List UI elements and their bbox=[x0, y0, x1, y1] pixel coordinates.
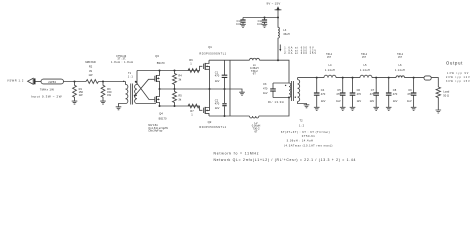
ground bbox=[373, 107, 379, 110]
svg-text:6T: 6T bbox=[254, 129, 257, 133]
node A (sec top tap) bbox=[135, 81, 137, 83]
svg-text:15T: 15T bbox=[327, 57, 332, 59]
node B (sec bottom tap) bbox=[134, 95, 137, 97]
label network bbox=[214, 151, 357, 162]
svg-text:L3: L3 bbox=[283, 28, 286, 32]
capacitor C1 470 1kV bbox=[215, 60, 228, 89]
wire (right bus) bbox=[229, 60, 231, 116]
svg-text:1kV: 1kV bbox=[393, 99, 398, 103]
transformer T1 secondary bbox=[135, 71, 156, 104]
ground bbox=[72, 101, 78, 104]
transistor Q1 bbox=[204, 60, 210, 89]
resistor R4 3k bbox=[173, 71, 183, 90]
capacitor C3 470 1kV bbox=[263, 82, 276, 98]
svg-text:FT50-61: FT50-61 bbox=[302, 134, 316, 138]
wire to Q1 gate bbox=[199, 66, 202, 70]
svg-text:15T: 15T bbox=[362, 57, 367, 59]
svg-text:1.14uH: 1.14uH bbox=[360, 68, 370, 72]
svg-text:1W: 1W bbox=[79, 93, 83, 97]
svg-text:Network QL= 2πfo(L1+L2) / (RL′: Network QL= 2πfo(L1+L2) / (RL′+Cesr) = 2… bbox=[214, 158, 357, 162]
resistor R1 150 1W bbox=[73, 82, 84, 102]
transistor Q4 bbox=[155, 89, 160, 106]
transformer T1 primary bbox=[119, 81, 128, 107]
svg-text:Q2: Q2 bbox=[208, 120, 212, 124]
node bbox=[174, 105, 176, 107]
wire (bottom rail to L2) bbox=[209, 115, 250, 117]
node bbox=[277, 17, 279, 19]
svg-text:Network fo = 11MHz: Network fo = 11MHz bbox=[214, 151, 260, 155]
inductor L2 0.36uH bbox=[250, 116, 261, 133]
inductor L1 0.36uH bbox=[250, 58, 260, 75]
node bbox=[224, 115, 226, 117]
transformer T2 primary bbox=[289, 83, 291, 97]
svg-text:50 Ω: 50 Ω bbox=[443, 94, 449, 98]
wire (top rail to L1) bbox=[209, 59, 250, 61]
svg-text:1kV: 1kV bbox=[357, 99, 362, 103]
ground bbox=[262, 24, 268, 27]
svg-text:1kV: 1kV bbox=[215, 106, 220, 110]
node (phase dot) bbox=[295, 97, 296, 98]
svg-text:2.0A at 600 15V: 2.0A at 600 15V bbox=[284, 52, 317, 55]
svg-text:T30-2: T30-2 bbox=[326, 54, 333, 56]
wire bbox=[64, 81, 87, 83]
svg-text:Q1: Q1 bbox=[208, 45, 212, 49]
svg-text:BS170: BS170 bbox=[157, 61, 165, 65]
label Input 0.3W ~ 2W bbox=[31, 94, 62, 98]
node bbox=[288, 97, 290, 99]
svg-text:VSWR 1.2: VSWR 1.2 bbox=[7, 78, 24, 82]
capacitor C2 470 1kV bbox=[215, 89, 227, 116]
svg-text:1kV: 1kV bbox=[215, 79, 220, 83]
svg-text:C11: C11 bbox=[258, 19, 263, 23]
ground bbox=[314, 107, 320, 110]
resistor R2 39 1W (6dB PAD) bbox=[85, 60, 98, 84]
svg-text:C9: C9 bbox=[408, 88, 412, 92]
node J1a bbox=[74, 81, 76, 83]
wire (LPF rail) bbox=[298, 77, 425, 79]
node bbox=[224, 88, 226, 90]
wire (cross B to Q3 gate) bbox=[135, 79, 155, 95]
svg-text:Load: Load bbox=[443, 90, 449, 94]
capacitor C5 470 1kV bbox=[336, 78, 345, 108]
label VSWR bbox=[7, 78, 24, 82]
transformer T1 labels bbox=[111, 54, 134, 79]
svg-text:470: 470 bbox=[357, 92, 362, 96]
input connector J1 bbox=[28, 78, 36, 84]
ground bbox=[386, 107, 392, 110]
ground bbox=[304, 105, 310, 108]
svg-text:13W typ 9V: 13W typ 9V bbox=[447, 72, 469, 75]
ground bbox=[411, 107, 417, 110]
svg-text:6T: 6T bbox=[253, 72, 256, 76]
svg-text:1W: 1W bbox=[107, 93, 111, 97]
ground bbox=[350, 107, 356, 110]
ground bbox=[239, 92, 245, 95]
node bbox=[159, 70, 161, 72]
svg-text:RL′ 13.3Ω: RL′ 13.3Ω bbox=[268, 100, 284, 104]
svg-text:470: 470 bbox=[336, 92, 341, 96]
wire bbox=[431, 78, 438, 87]
svg-text:1kV: 1kV bbox=[407, 99, 412, 103]
transformer T2 core bbox=[291, 81, 293, 101]
svg-text:R5: R5 bbox=[178, 93, 182, 97]
svg-text:7MHz 1W: 7MHz 1W bbox=[40, 87, 54, 91]
label 9V ~ 15V bbox=[267, 2, 281, 6]
svg-text:T30-2: T30-2 bbox=[361, 54, 368, 56]
svg-text:20W typ 12V: 20W typ 12V bbox=[446, 76, 471, 79]
node bbox=[174, 88, 176, 90]
svg-text:RD3P0509SNTL1: RD3P0509SNTL1 bbox=[199, 125, 226, 129]
svg-text:T30-2: T30-2 bbox=[397, 54, 404, 56]
resistor Load 50ohm bbox=[436, 87, 450, 110]
wire (top drive rail) bbox=[137, 70, 200, 72]
ground bbox=[340, 107, 346, 110]
resistor R3 150 1W bbox=[101, 82, 112, 102]
node bbox=[159, 88, 161, 90]
inductor L3 33uH bbox=[278, 18, 290, 61]
node bbox=[174, 70, 176, 72]
transistor Q3 bbox=[155, 71, 160, 90]
svg-text:1kV: 1kV bbox=[321, 99, 326, 103]
node J2 bbox=[102, 81, 104, 83]
capacitor C4 470 1kV bbox=[314, 78, 326, 108]
svg-text:C8: C8 bbox=[393, 88, 397, 92]
wire (supply rail) bbox=[243, 17, 278, 19]
svg-text:470: 470 bbox=[407, 92, 412, 96]
wire to Q2 gate bbox=[199, 106, 202, 110]
svg-text:R4: R4 bbox=[178, 73, 182, 77]
output coax bbox=[424, 76, 431, 80]
wire bbox=[99, 81, 126, 83]
svg-text:60V 0.5A: 60V 0.5A bbox=[148, 124, 158, 127]
ground bbox=[116, 107, 122, 110]
svg-text:470: 470 bbox=[215, 102, 220, 106]
svg-text:2W50: 2W50 bbox=[48, 80, 56, 84]
svg-text:C6: C6 bbox=[357, 88, 361, 92]
wire bbox=[36, 81, 42, 83]
resistor R7 1 bbox=[188, 104, 199, 116]
wire bbox=[259, 98, 289, 117]
node bbox=[375, 77, 377, 79]
transformer T2 secondary bbox=[298, 78, 307, 105]
svg-text:BS170: BS170 bbox=[159, 116, 167, 120]
node (phase dot) bbox=[285, 85, 286, 86]
svg-text:RD3P0509SNTL1: RD3P0509SNTL1 bbox=[199, 51, 226, 55]
svg-text:Q3: Q3 bbox=[155, 54, 159, 58]
svg-text:1.14uH: 1.14uH bbox=[395, 68, 405, 72]
label BS170 specs bbox=[148, 124, 168, 132]
coax box (2W50) bbox=[41, 79, 64, 84]
node bbox=[342, 77, 344, 79]
transistor Q2 bbox=[204, 89, 210, 116]
svg-text:1 : 2: 1 : 2 bbox=[299, 123, 305, 127]
svg-text:R2: R2 bbox=[89, 65, 93, 69]
svg-text:15T: 15T bbox=[398, 57, 403, 59]
svg-text:470: 470 bbox=[321, 92, 326, 96]
ground bbox=[100, 101, 106, 104]
ground bbox=[436, 110, 442, 113]
svg-text:1W: 1W bbox=[89, 73, 93, 77]
svg-text:Q4: Q4 bbox=[159, 112, 163, 116]
label Q2 bbox=[199, 120, 226, 129]
svg-text:Qg 1.5nC at Vgs5V: Qg 1.5nC at Vgs5V bbox=[148, 127, 168, 130]
capacitor C7 470 1kV bbox=[370, 78, 379, 108]
wire bbox=[260, 60, 290, 83]
inductor L5 1.14uH bbox=[360, 54, 372, 77]
label RL' bbox=[268, 100, 284, 104]
label 7MHz 1W bbox=[40, 87, 54, 91]
svg-text:Output: Output bbox=[446, 60, 463, 65]
svg-text:6dB PAD: 6dB PAD bbox=[85, 60, 96, 64]
node bbox=[209, 88, 211, 90]
inductor L4 1.14uH bbox=[324, 54, 336, 77]
svg-text:1kV: 1kV bbox=[336, 99, 341, 103]
node bbox=[413, 77, 415, 79]
transformer T1 core bbox=[131, 84, 133, 105]
svg-text:C5: C5 bbox=[337, 88, 341, 92]
svg-text:470: 470 bbox=[263, 87, 268, 91]
svg-text:9V ~ 15V: 9V ~ 15V bbox=[267, 2, 281, 6]
svg-text:1.8uH : 1.8uH: 1.8uH : 1.8uH bbox=[111, 60, 134, 64]
node bbox=[316, 77, 318, 79]
svg-text:Input 0.3W ~ 2W: Input 0.3W ~ 2W bbox=[31, 94, 62, 98]
capacitor C6 470 1kV bbox=[350, 78, 362, 108]
wire (cross A to Q4 gate) bbox=[136, 82, 155, 100]
ground bbox=[240, 24, 246, 27]
svg-text:Ciss 24pF typ: Ciss 24pF typ bbox=[148, 129, 163, 132]
label Q3 bbox=[155, 54, 165, 65]
svg-text:470: 470 bbox=[370, 92, 375, 96]
label T2 bbox=[281, 118, 333, 147]
svg-text:C3: C3 bbox=[263, 82, 267, 86]
svg-text:1.14uH: 1.14uH bbox=[325, 68, 335, 72]
svg-text:1kV: 1kV bbox=[370, 99, 375, 103]
svg-text:(4.3ATmax (10.1AT rms max)): (4.3ATmax (10.1AT rms max)) bbox=[284, 144, 333, 148]
current arrow bbox=[279, 45, 317, 56]
node bbox=[159, 105, 161, 107]
resistor R5 3k bbox=[173, 89, 183, 106]
svg-text:1 : 1: 1 : 1 bbox=[128, 75, 134, 79]
wire (mid rail) bbox=[160, 89, 243, 92]
node bbox=[388, 77, 390, 79]
capacitor C9 470 1kV bbox=[407, 78, 416, 108]
node bbox=[352, 77, 354, 79]
svg-text:C10: C10 bbox=[236, 19, 241, 23]
svg-text:470: 470 bbox=[215, 74, 220, 78]
label Output bbox=[446, 60, 471, 83]
svg-text:3T : 3T,: 3T : 3T, bbox=[117, 57, 126, 61]
svg-text:3.36uH : 14.4uH: 3.36uH : 14.4uH bbox=[287, 139, 314, 143]
svg-text:1kV: 1kV bbox=[263, 91, 268, 95]
wire bbox=[273, 83, 289, 98]
inductor L6 1.14uH bbox=[395, 54, 405, 77]
node bbox=[264, 17, 266, 19]
capacitor C11 0.01 bbox=[257, 18, 267, 27]
svg-text:30W typ 15V: 30W typ 15V bbox=[446, 80, 471, 83]
power flag bbox=[275, 6, 282, 17]
label Q1 bbox=[199, 45, 226, 55]
resistor R6 1 bbox=[188, 58, 199, 72]
wire (bottom drive rail) bbox=[160, 105, 200, 107]
svg-text:6T(3T+3T) : 6T : 6T (Trifilar): 6T(3T+3T) : 6T : 6T (Trifilar) bbox=[281, 130, 330, 134]
svg-text:470: 470 bbox=[393, 92, 398, 96]
svg-text:C4: C4 bbox=[321, 88, 325, 92]
svg-text:33uH: 33uH bbox=[283, 32, 289, 36]
capacitor C10 0.01 bbox=[236, 18, 245, 27]
svg-text:C7: C7 bbox=[371, 88, 375, 92]
capacitor C8 470 1kV bbox=[386, 78, 398, 108]
svg-text:R6: R6 bbox=[189, 58, 193, 62]
label Q4 bbox=[159, 112, 167, 121]
